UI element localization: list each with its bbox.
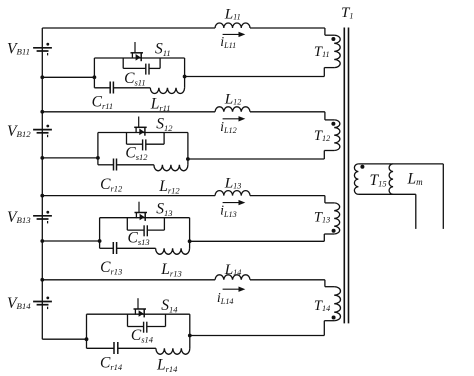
- svg-text:Cr12: Cr12: [100, 176, 123, 193]
- wire loop 13 top side: [100, 217, 190, 219]
- svg-text:VB13: VB13: [7, 209, 31, 226]
- wire Cs12 box bottom: [127, 143, 143, 145]
- wire Cs11 box right: [159, 58, 161, 68]
- wire tee VB12 to loop: [42, 157, 98, 159]
- wire Cs13 box left: [126, 218, 128, 230]
- wire loop 13 left side: [99, 218, 101, 249]
- wire loop 13 bottom left: [100, 247, 114, 249]
- transformer winding T15: [354, 164, 358, 194]
- wire module 14 L-to-T: [250, 279, 325, 281]
- wire loop 12 left side: [97, 133, 99, 165]
- transformer core: [343, 28, 345, 324]
- svg-text:Cr11: Cr11: [92, 94, 114, 111]
- wire 12 T bottom: [324, 150, 334, 152]
- transformer winding T13: [334, 203, 339, 234]
- svg-text:T11: T11: [314, 44, 330, 60]
- current arrow iL12: [223, 118, 240, 120]
- svg-text:T12: T12: [314, 128, 330, 144]
- wire Cs13 box bottom: [127, 229, 143, 231]
- wire Cs12 box left: [126, 133, 128, 145]
- wire loop 11 right side: [184, 58, 186, 77]
- svg-text:Lr11: Lr11: [150, 96, 171, 113]
- wire module 12 top rail-to-L: [42, 111, 215, 113]
- svg-text:iL13: iL13: [220, 204, 237, 219]
- svg-text:S11: S11: [155, 41, 171, 58]
- polarity dot T12: [331, 122, 335, 126]
- wire Cs11 box left: [122, 58, 124, 68]
- svg-text:VB11: VB11: [7, 41, 30, 58]
- wire loop 14 riser: [189, 336, 191, 349]
- node loop right 14: [188, 334, 192, 338]
- wire loop 12 bottom left: [98, 164, 114, 166]
- wire 11 T bottom: [324, 67, 334, 69]
- capacitor Cr13: [112, 242, 114, 254]
- svg-text:Cs12: Cs12: [125, 145, 148, 162]
- wire Cs12 box right: [163, 133, 165, 145]
- inductor L13: [215, 191, 250, 196]
- wire loop 12 riser: [187, 159, 189, 165]
- transistor S13: [138, 202, 140, 213]
- polarity dot T14: [332, 316, 336, 320]
- wire 13 T jog: [323, 234, 325, 241]
- wire 11 T jog: [323, 68, 325, 77]
- svg-text:Cr14: Cr14: [100, 355, 123, 372]
- wire 14 loop-to-T: [190, 335, 324, 337]
- transistor S11: [134, 42, 136, 53]
- transformer winding T12: [334, 120, 340, 151]
- wire module 13 top rail-to-L: [42, 195, 215, 197]
- transformer winding T11: [334, 35, 340, 67]
- polarity dot T13: [332, 229, 336, 233]
- svg-text:S13: S13: [156, 201, 172, 218]
- node loop right 12: [186, 157, 190, 161]
- wire loop 14 bottom mid: [118, 347, 156, 349]
- wire loop 14 left side: [86, 314, 88, 348]
- inductor L14: [215, 275, 250, 280]
- inductor Lr12: [154, 165, 188, 171]
- wire loop 11 riser: [184, 77, 186, 88]
- transformer winding T14: [334, 287, 340, 321]
- wire loop 12 bottom mid: [117, 164, 154, 166]
- inductor Lm: [389, 164, 393, 194]
- svg-text:Cs13: Cs13: [128, 230, 150, 247]
- wire loop 12 top side: [98, 132, 188, 134]
- wire Cs14 box left: [127, 314, 129, 326]
- battery VB14: [33, 301, 52, 303]
- node loop left 11: [93, 75, 97, 79]
- inductor L11: [215, 23, 250, 28]
- wire secondary bottom: [358, 193, 415, 195]
- inductor Lr14: [156, 348, 190, 354]
- wire loop 11 bottom left: [94, 87, 110, 89]
- wire loop 11 left side: [93, 58, 95, 88]
- wire module 11 top rail-to-L: [42, 27, 215, 29]
- battery VB12: [33, 129, 52, 131]
- svg-text:iL11: iL11: [220, 35, 236, 50]
- wire Cs14 box bottom: [128, 326, 144, 328]
- svg-text:L14: L14: [224, 261, 242, 278]
- node rail top 13: [40, 194, 44, 198]
- node rail tee 11: [40, 75, 44, 79]
- wire module 14 top rail-to-L: [42, 279, 215, 281]
- current arrow iL11: [223, 33, 240, 35]
- svg-text:Cr13: Cr13: [100, 259, 122, 276]
- wire 14 T top jog: [324, 280, 326, 287]
- capacitor Cs13: [143, 225, 145, 236]
- wire 13 loop-to-T: [190, 240, 325, 242]
- node loop right 11: [183, 75, 187, 79]
- node rail top 12: [40, 110, 44, 114]
- svg-text:Lr14: Lr14: [156, 357, 178, 374]
- transistor S14: [137, 298, 139, 309]
- wire 13 T bottom: [324, 233, 334, 235]
- capacitor Cr11: [109, 82, 111, 94]
- wire 12 T top jog: [324, 112, 326, 120]
- wire output stub left: [415, 194, 417, 229]
- svg-text:L12: L12: [224, 90, 242, 107]
- node loop left 12: [96, 156, 100, 160]
- capacitor Cs12: [142, 139, 144, 150]
- wire module 11 L-to-T: [250, 27, 325, 29]
- svg-text:S14: S14: [161, 297, 178, 314]
- inductor Lr13: [156, 248, 190, 254]
- svg-text:Cs14: Cs14: [131, 327, 154, 344]
- wire 12 loop-to-T: [188, 158, 324, 160]
- transistor S12: [138, 117, 140, 128]
- wire tee VB14 to loop: [42, 338, 86, 340]
- wire Cs13 box right: [163, 218, 165, 230]
- node loop left 13: [98, 239, 102, 243]
- node rail tee 12: [40, 156, 44, 160]
- wire 13 T top jog: [324, 196, 326, 203]
- svg-text:T1: T1: [341, 5, 353, 21]
- node loop right 13: [188, 239, 192, 243]
- battery VB11: [33, 47, 52, 49]
- capacitor Cr12: [113, 159, 115, 171]
- svg-text:L13: L13: [224, 174, 242, 191]
- battery VB13: [33, 215, 52, 217]
- node loop left 14: [85, 337, 89, 341]
- svg-text:T15: T15: [370, 172, 387, 189]
- wire loop 13 bottom mid: [117, 247, 156, 249]
- wire module 12 L-to-T: [250, 111, 325, 113]
- wire Cs14 box right: [165, 314, 167, 326]
- wire 11 loop-to-T: [185, 76, 325, 78]
- polarity dot T15: [360, 165, 364, 169]
- wire 14 T jog: [323, 321, 325, 336]
- wire loop 14 top side: [87, 313, 190, 315]
- wire loop 12 right side: [187, 133, 189, 160]
- capacitor Cr14: [113, 342, 115, 354]
- svg-text:Lr13: Lr13: [160, 261, 181, 278]
- inductor L12: [215, 107, 250, 112]
- capacitor Cs14: [143, 322, 145, 333]
- svg-text:T13: T13: [314, 210, 330, 226]
- wire loop 14 right side: [189, 314, 191, 335]
- inductor Lr11: [150, 88, 184, 94]
- wire Cs11 box bottom: [123, 67, 145, 69]
- wire output stub right: [442, 164, 444, 229]
- wire loop 11 top side: [94, 57, 184, 59]
- wire loop 13 right side: [189, 218, 191, 242]
- current arrow iL13: [223, 202, 240, 204]
- svg-text:VB14: VB14: [7, 295, 31, 312]
- wire secondary top: [358, 163, 443, 165]
- wire 11 T top jog: [324, 28, 326, 35]
- wire tee VB11 to loop: [42, 76, 94, 78]
- svg-text:Cs11: Cs11: [124, 70, 146, 87]
- wire module 13 L-to-T: [250, 195, 325, 197]
- capacitor Cs11: [145, 64, 147, 75]
- svg-text:VB12: VB12: [7, 123, 31, 140]
- svg-text:T14: T14: [314, 298, 330, 314]
- wire tee VB13 to loop: [42, 240, 99, 242]
- wire 14 T bottom: [324, 320, 334, 322]
- wire loop 11 bottom mid: [113, 87, 150, 89]
- polarity dot T11: [331, 37, 335, 41]
- node rail top 14: [40, 278, 44, 282]
- svg-text:iL12: iL12: [220, 120, 237, 135]
- svg-text:Lm: Lm: [407, 171, 424, 188]
- wire loop 13 riser: [189, 241, 191, 248]
- svg-text:iL14: iL14: [217, 291, 234, 306]
- wire 12 T jog: [323, 151, 325, 160]
- svg-text:S12: S12: [156, 116, 173, 133]
- wire loop 14 bottom left: [87, 347, 115, 349]
- current arrow iL14: [223, 288, 240, 290]
- node rail tee 13: [40, 239, 44, 243]
- svg-text:Lr12: Lr12: [158, 178, 180, 195]
- wire left battery rail: [41, 28, 43, 339]
- svg-text:L11: L11: [224, 5, 241, 22]
